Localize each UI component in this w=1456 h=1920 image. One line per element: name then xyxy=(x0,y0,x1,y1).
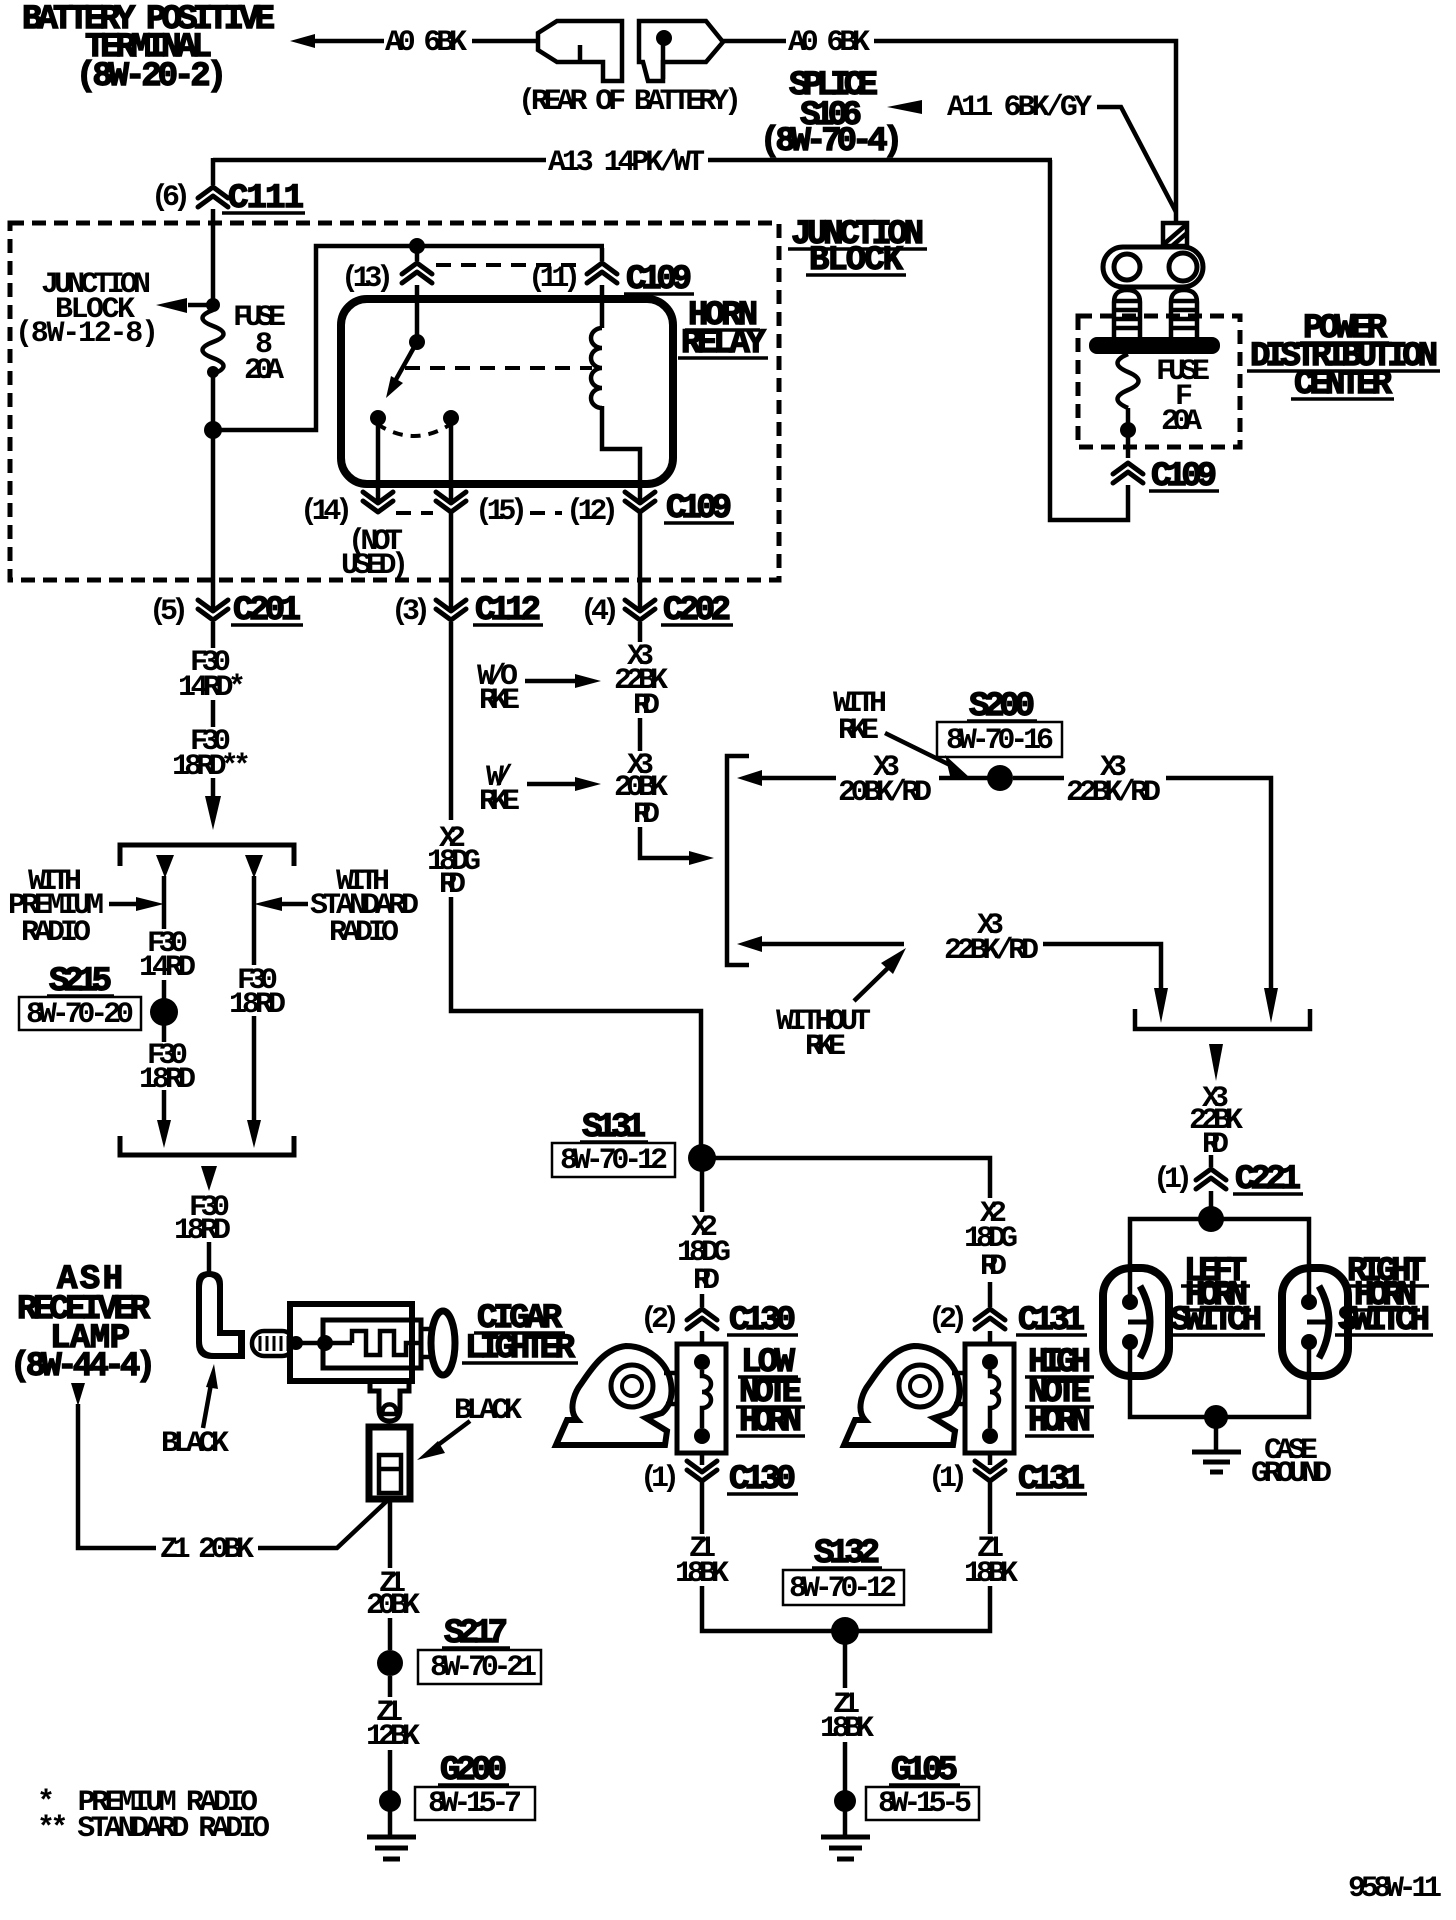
svg-text:18RD: 18RD xyxy=(139,1063,196,1097)
junction dot horn switches top xyxy=(1198,1206,1224,1232)
wire w/ rke xyxy=(760,776,836,781)
label X2 18DG RD xyxy=(427,822,481,902)
label X3 22BK/RD without rke xyxy=(944,909,1039,968)
label W/ RKE xyxy=(479,761,520,819)
PDC dashed box xyxy=(1078,316,1240,447)
svg-text:18RD: 18RD xyxy=(174,1214,231,1248)
heading POWER DISTRIBUTION CENTER xyxy=(1247,310,1440,404)
arrow BLACK to connector housing xyxy=(417,1421,470,1460)
heading JUNCTION BLOCK xyxy=(788,216,927,280)
label FUSE 8 20A xyxy=(233,301,286,388)
box 8W-70-12 xyxy=(552,1143,675,1178)
wire xyxy=(162,980,167,999)
svg-text:RD: RD xyxy=(980,1250,1007,1284)
wire S131 to right horn branch xyxy=(715,1158,990,1198)
wire to left switch xyxy=(1130,1219,1211,1297)
label F30 14RD xyxy=(139,927,196,985)
label F30 18RD xyxy=(174,1191,231,1248)
svg-text:(11): (11) xyxy=(528,262,581,296)
svg-text:USED): USED) xyxy=(341,549,409,583)
label X3 22BK RD xyxy=(1189,1082,1243,1162)
svg-text:(8W-20-2): (8W-20-2) xyxy=(76,58,227,96)
connector chevron (2) C130 xyxy=(687,1309,717,1329)
svg-text:20A: 20A xyxy=(244,354,284,388)
heading LOW NOTE HORN xyxy=(736,1344,805,1441)
wire w/o rke xyxy=(760,942,904,947)
arrow to battery positive terminal xyxy=(290,34,315,48)
heading RIGHT HORN SWITCH xyxy=(1335,1253,1433,1340)
ground dot G200 xyxy=(379,1790,401,1812)
label F30 18RD right xyxy=(229,964,286,1022)
wire to C221 xyxy=(1209,1155,1214,1167)
wire below housing xyxy=(388,1499,393,1568)
PDC spring terminal left xyxy=(1114,290,1140,337)
svg-text:18BK: 18BK xyxy=(675,1557,729,1591)
junction dot at fuse top xyxy=(206,298,220,312)
wire horn to (1) xyxy=(700,1453,705,1465)
svg-text:A0 6BK: A0 6BK xyxy=(788,26,870,60)
ground dot G105 xyxy=(834,1790,856,1812)
svg-text:(15): (15) xyxy=(475,495,528,529)
dashed line arm to coil xyxy=(405,366,592,370)
svg-text:(1): (1) xyxy=(1153,1163,1193,1197)
svg-text:18RD: 18RD xyxy=(229,988,286,1022)
arrow below bracket xyxy=(201,1166,217,1191)
wire to S200 xyxy=(939,776,989,781)
relay contact dot left xyxy=(370,410,386,426)
small arrow down right branch xyxy=(245,855,263,878)
label (NOT USED) xyxy=(341,525,409,583)
svg-text:(8W-70-4): (8W-70-4) xyxy=(760,123,903,161)
wire horn to (1) xyxy=(988,1453,993,1465)
label JUNCTION BLOCK (8W-12-8) xyxy=(15,268,159,351)
wire junction dot to relay feed xyxy=(213,246,604,430)
svg-text:RD: RD xyxy=(693,1264,720,1298)
RKE branch bracket xyxy=(727,756,749,965)
relay coil xyxy=(591,328,602,408)
fuse 8 element xyxy=(203,310,224,378)
label X2 18DG RD right horn xyxy=(964,1197,1018,1284)
label Z1 18BK left xyxy=(675,1532,729,1591)
svg-text:(1): (1) xyxy=(640,1462,680,1496)
wire (15) to C112 xyxy=(449,513,454,608)
junction dot relay feed xyxy=(409,238,425,254)
label Z1 12BK xyxy=(366,1696,420,1754)
junction block dashed box xyxy=(10,223,779,580)
PDC fuse link holder xyxy=(1103,247,1203,287)
small arrow down left branch xyxy=(156,855,174,878)
svg-text:18BK: 18BK xyxy=(964,1557,1018,1591)
wire with arrow down right xyxy=(1166,778,1278,1023)
wire A13 14PK/WT horizontal xyxy=(213,158,546,163)
battery terminal clamp right xyxy=(639,21,723,81)
label WITH PREMIUM RADIO xyxy=(8,865,104,950)
wire to switch junction xyxy=(1209,1191,1214,1210)
splice dot S131 xyxy=(688,1144,716,1172)
box 8W-15-7 xyxy=(415,1787,535,1821)
wire from C109 down-left-up to A13 xyxy=(1050,160,1128,520)
svg-text:RD: RD xyxy=(439,868,466,902)
svg-text:8W-70-21: 8W-70-21 xyxy=(430,1651,537,1685)
arrow BLACK to lamp socket xyxy=(203,1364,218,1428)
wire to C130 xyxy=(700,1294,705,1307)
label WITH STANDARD RADIO xyxy=(310,865,419,950)
wire xyxy=(472,39,538,44)
svg-text:14RD*: 14RD* xyxy=(178,671,246,705)
label X3 22BK RD xyxy=(614,640,668,723)
svg-text:22BK/RD: 22BK/RD xyxy=(944,934,1039,968)
relay contact dot right xyxy=(443,410,459,426)
label CASE GROUND xyxy=(1251,1434,1332,1491)
svg-text:(6): (6) xyxy=(151,181,191,215)
label X3 22BK/RD xyxy=(1066,751,1161,810)
horn relay box xyxy=(341,299,673,484)
wire with big arrow down xyxy=(205,778,221,830)
label W/O RKE xyxy=(477,660,520,718)
wire xyxy=(988,1482,993,1534)
svg-text:8W-15-7: 8W-15-7 xyxy=(428,1787,522,1821)
relay switch arm with arrowhead xyxy=(386,342,417,398)
svg-text:(4): (4) xyxy=(580,595,620,629)
heading LEFT HORN SWITCH xyxy=(1167,1253,1265,1340)
svg-text:RADIO: RADIO xyxy=(21,916,91,950)
wire xyxy=(211,700,216,727)
svg-text:A11 6BK/GY: A11 6BK/GY xyxy=(947,91,1092,125)
svg-text:(13): (13) xyxy=(341,262,394,296)
wire (12) to C202 xyxy=(638,513,643,608)
connector chevron (12) xyxy=(625,492,655,512)
wire C111 to fuse 8 xyxy=(211,209,216,310)
relay arm pivot dot xyxy=(409,334,425,350)
svg-text:A13 14PK/WT: A13 14PK/WT xyxy=(548,146,705,180)
svg-text:RD: RD xyxy=(633,798,660,832)
connector chevron (14) xyxy=(363,492,393,512)
svg-text:8W-70-20: 8W-70-20 xyxy=(26,998,134,1032)
connector chevron (2) C131 xyxy=(975,1309,1005,1329)
svg-text:22BK/RD: 22BK/RD xyxy=(1066,776,1161,810)
svg-text:20BK: 20BK xyxy=(366,1589,420,1623)
svg-text:BLACK: BLACK xyxy=(161,1427,229,1461)
cigar lighter body xyxy=(290,1304,412,1381)
svg-text:8W-70-12: 8W-70-12 xyxy=(789,1572,897,1606)
connector chevron (4) C202 xyxy=(625,600,655,620)
PDC bus bar xyxy=(1089,337,1220,354)
svg-text:20A: 20A xyxy=(1161,405,1202,439)
svg-text:8W-15-5: 8W-15-5 xyxy=(878,1787,972,1821)
wire C112 branch to S131 xyxy=(451,897,701,1146)
wire xyxy=(388,1676,393,1697)
arrow WITH RKE to S200 xyxy=(885,733,969,780)
svg-text:(8W-12-8): (8W-12-8) xyxy=(15,317,159,351)
cigar lighter knob xyxy=(431,1311,455,1375)
box 8W-70-20 xyxy=(19,997,141,1032)
arrow WITHOUT RKE to wire xyxy=(854,948,906,1001)
ground symbol case ground xyxy=(1192,1427,1241,1472)
radio branch bottom bracket xyxy=(120,1136,294,1155)
arrow below bracket xyxy=(1209,1044,1223,1081)
wire into horn xyxy=(700,1331,705,1360)
dashed connector line C109 bottom xyxy=(396,511,433,515)
wire left contact to (14) xyxy=(376,424,381,501)
label X3 20BK RD xyxy=(614,749,668,832)
right horn switch xyxy=(1282,1268,1348,1376)
wire with long arrow xyxy=(247,1016,261,1148)
heading ASH RECEIVER LAMP (8W-44-4) xyxy=(10,1261,156,1386)
wire (11) to relay coil xyxy=(600,248,605,261)
battery terminal clamp left xyxy=(538,21,622,81)
svg-text:18BK: 18BK xyxy=(820,1712,874,1746)
wire Z1 to lighter connector xyxy=(258,1498,390,1548)
arrow standard radio xyxy=(254,897,308,911)
left horn switch xyxy=(1103,1268,1169,1376)
label WITHOUT RKE xyxy=(776,1005,871,1064)
junction dot case ground xyxy=(1204,1405,1228,1429)
connector chevron (1) C221 xyxy=(1196,1169,1226,1189)
wire C112 down xyxy=(449,622,454,820)
arrow W/ RKE xyxy=(527,777,601,791)
svg-text:20BK/RD: 20BK/RD xyxy=(838,776,932,810)
wire xyxy=(388,1750,393,1792)
wire A0 6BK right segment xyxy=(723,39,786,44)
wire A11 diagonal to PDC connector xyxy=(1097,107,1176,212)
fuse F element xyxy=(1118,354,1139,458)
wire to S132 xyxy=(858,1586,990,1631)
label Z1 20BK xyxy=(366,1567,420,1623)
svg-text:958W-11: 958W-11 xyxy=(1348,1872,1442,1906)
wire xyxy=(638,718,643,751)
heading HIGH NOTE HORN xyxy=(1025,1344,1094,1441)
box 8W-70-16 xyxy=(937,722,1062,758)
label WITH RKE xyxy=(833,687,887,748)
label X2 18DG RD left horn xyxy=(677,1211,731,1298)
label F30 18RD** xyxy=(172,725,251,784)
svg-text:(8W-44-4): (8W-44-4) xyxy=(10,1348,156,1386)
connector chevron (1) C130 xyxy=(687,1461,717,1481)
wire A0 6BK left segment xyxy=(313,39,384,44)
svg-text:(1): (1) xyxy=(928,1462,968,1496)
ground symbol G200 xyxy=(367,1810,416,1859)
heading SPLICE S106 (8W-70-4) xyxy=(760,67,903,161)
horn switch bracket xyxy=(1135,1009,1310,1029)
wire to S132 xyxy=(702,1586,833,1631)
svg-text:GROUND: GROUND xyxy=(1251,1457,1332,1491)
arrow into bracket top xyxy=(737,770,762,786)
splice dot S217 xyxy=(377,1650,403,1676)
svg-text:(5): (5) xyxy=(149,595,189,629)
wire with arrow into bracket xyxy=(640,827,714,865)
connector chevron (5) C201 xyxy=(198,600,228,620)
radio branch top bracket xyxy=(120,845,294,866)
splice dot S215 xyxy=(150,998,178,1026)
dashed contact arc xyxy=(377,424,451,436)
svg-text:RKE: RKE xyxy=(479,785,520,819)
PDC terminal connector with stripe xyxy=(1163,223,1187,246)
tab bulb detail xyxy=(383,1404,397,1414)
wire right switch down xyxy=(1211,1348,1309,1417)
wire xyxy=(162,1025,167,1042)
svg-text:RKE: RKE xyxy=(838,714,879,748)
wire S131 down xyxy=(700,1171,705,1212)
wire xyxy=(843,1742,848,1793)
wire coil to (12) xyxy=(602,406,640,501)
connector chevron (3) C112 xyxy=(436,600,466,620)
arrow premium radio xyxy=(109,897,164,911)
connector chevron (11) xyxy=(587,263,617,283)
box 8W-70-21 xyxy=(418,1650,541,1685)
svg-text:(REAR OF BATTERY): (REAR OF BATTERY) xyxy=(518,85,742,119)
box 8W-15-5 xyxy=(866,1787,979,1821)
wire fuse to C201 xyxy=(211,374,216,608)
connector chevron (13) xyxy=(402,263,432,283)
ground symbol G105 xyxy=(821,1810,870,1859)
label F30 14RD* xyxy=(178,646,246,705)
lighter connector housing xyxy=(369,1427,410,1499)
cigar lighter mounting tab xyxy=(370,1381,409,1421)
heading HORN RELAY xyxy=(678,297,768,363)
wire left switch down xyxy=(1130,1348,1211,1417)
junction dot xyxy=(204,421,222,439)
connector chevron (1) C131 xyxy=(975,1461,1005,1481)
arrow to splice S106 xyxy=(887,100,922,114)
label F30 18RD xyxy=(139,1039,196,1097)
connector chevron (15) xyxy=(436,492,466,512)
cigar lighter screw tip xyxy=(252,1331,294,1356)
svg-text:(2): (2) xyxy=(928,1303,968,1337)
wire right contact to (15) xyxy=(449,424,454,501)
svg-text:Z1 20BK: Z1 20BK xyxy=(160,1533,254,1567)
svg-text:RADIO: RADIO xyxy=(329,916,399,950)
wire into horn xyxy=(988,1331,993,1360)
arrow W/O RKE xyxy=(525,674,601,688)
wire (13) to relay arm pivot xyxy=(415,248,420,261)
label Z1 18BK xyxy=(820,1688,874,1746)
svg-text:** STANDARD RADIO: ** STANDARD RADIO xyxy=(37,1812,270,1846)
wire from S200 right xyxy=(1013,776,1064,781)
wire to lamp xyxy=(207,1242,212,1274)
arrow to junction block label xyxy=(156,298,213,313)
wire left branch xyxy=(162,876,167,929)
wire to power distribution center xyxy=(874,41,1176,222)
cigar lighter heating element xyxy=(352,1331,420,1355)
dashed connector line C109 top xyxy=(436,263,585,267)
right horn wire to C131 xyxy=(988,1282,993,1307)
wire to right switch xyxy=(1211,1219,1309,1297)
wire right branch xyxy=(252,876,257,965)
wire C202 down xyxy=(638,622,643,642)
label X3 20BK/RD xyxy=(838,751,932,810)
wire ash lamp to Z1 20BK xyxy=(78,1404,156,1548)
label FUSE F 20A xyxy=(1156,355,1210,439)
arrow into bracket bottom xyxy=(737,936,762,952)
connector C111 chevron (6) xyxy=(198,187,228,207)
splice dot S200 xyxy=(987,765,1013,791)
cigar lighter center line and dots xyxy=(289,1335,352,1351)
svg-text:(2): (2) xyxy=(640,1303,680,1337)
svg-text:(3): (3) xyxy=(391,595,431,629)
svg-text:RKE: RKE xyxy=(805,1030,846,1064)
PDC spring terminal right xyxy=(1171,290,1197,337)
wire down to C111 xyxy=(211,158,216,185)
wire with long arrow xyxy=(157,1090,171,1148)
splice dot S132 xyxy=(831,1617,859,1645)
heading BATTERY POSITIVE TERMINAL (8W-20-2) xyxy=(22,1,275,96)
wire xyxy=(388,1618,393,1650)
svg-text:RD: RD xyxy=(633,689,660,723)
svg-text:RD: RD xyxy=(1202,1128,1229,1162)
svg-text:RKE: RKE xyxy=(479,684,520,718)
high note horn symbol xyxy=(844,1344,1014,1453)
wire S132 down xyxy=(843,1644,848,1688)
wire C201 down xyxy=(211,622,216,648)
svg-text:8W-70-16: 8W-70-16 xyxy=(946,724,1054,758)
low note horn symbol xyxy=(556,1344,726,1453)
connector C109 chevron (PDC) xyxy=(1113,463,1143,483)
wire with arrow down xyxy=(1043,944,1168,1023)
box 8W-70-12 xyxy=(783,1570,904,1606)
label Z1 18BK right xyxy=(964,1532,1018,1591)
svg-text:12BK: 12BK xyxy=(366,1720,420,1754)
wire xyxy=(700,1482,705,1534)
arrow down from ash lamp label xyxy=(71,1383,85,1406)
cigar lighter neck xyxy=(421,1329,434,1357)
svg-text:8W-70-12: 8W-70-12 xyxy=(560,1144,668,1178)
svg-text:A0 6BK: A0 6BK xyxy=(385,26,467,60)
cigar lighter inner element housing xyxy=(323,1320,421,1368)
svg-text:14RD: 14RD xyxy=(139,951,196,985)
ash receiver lamp socket xyxy=(196,1271,245,1359)
svg-text:(12): (12) xyxy=(566,495,619,529)
svg-text:(14): (14) xyxy=(300,495,353,529)
heading CIGAR LIGHTER xyxy=(462,1300,578,1368)
